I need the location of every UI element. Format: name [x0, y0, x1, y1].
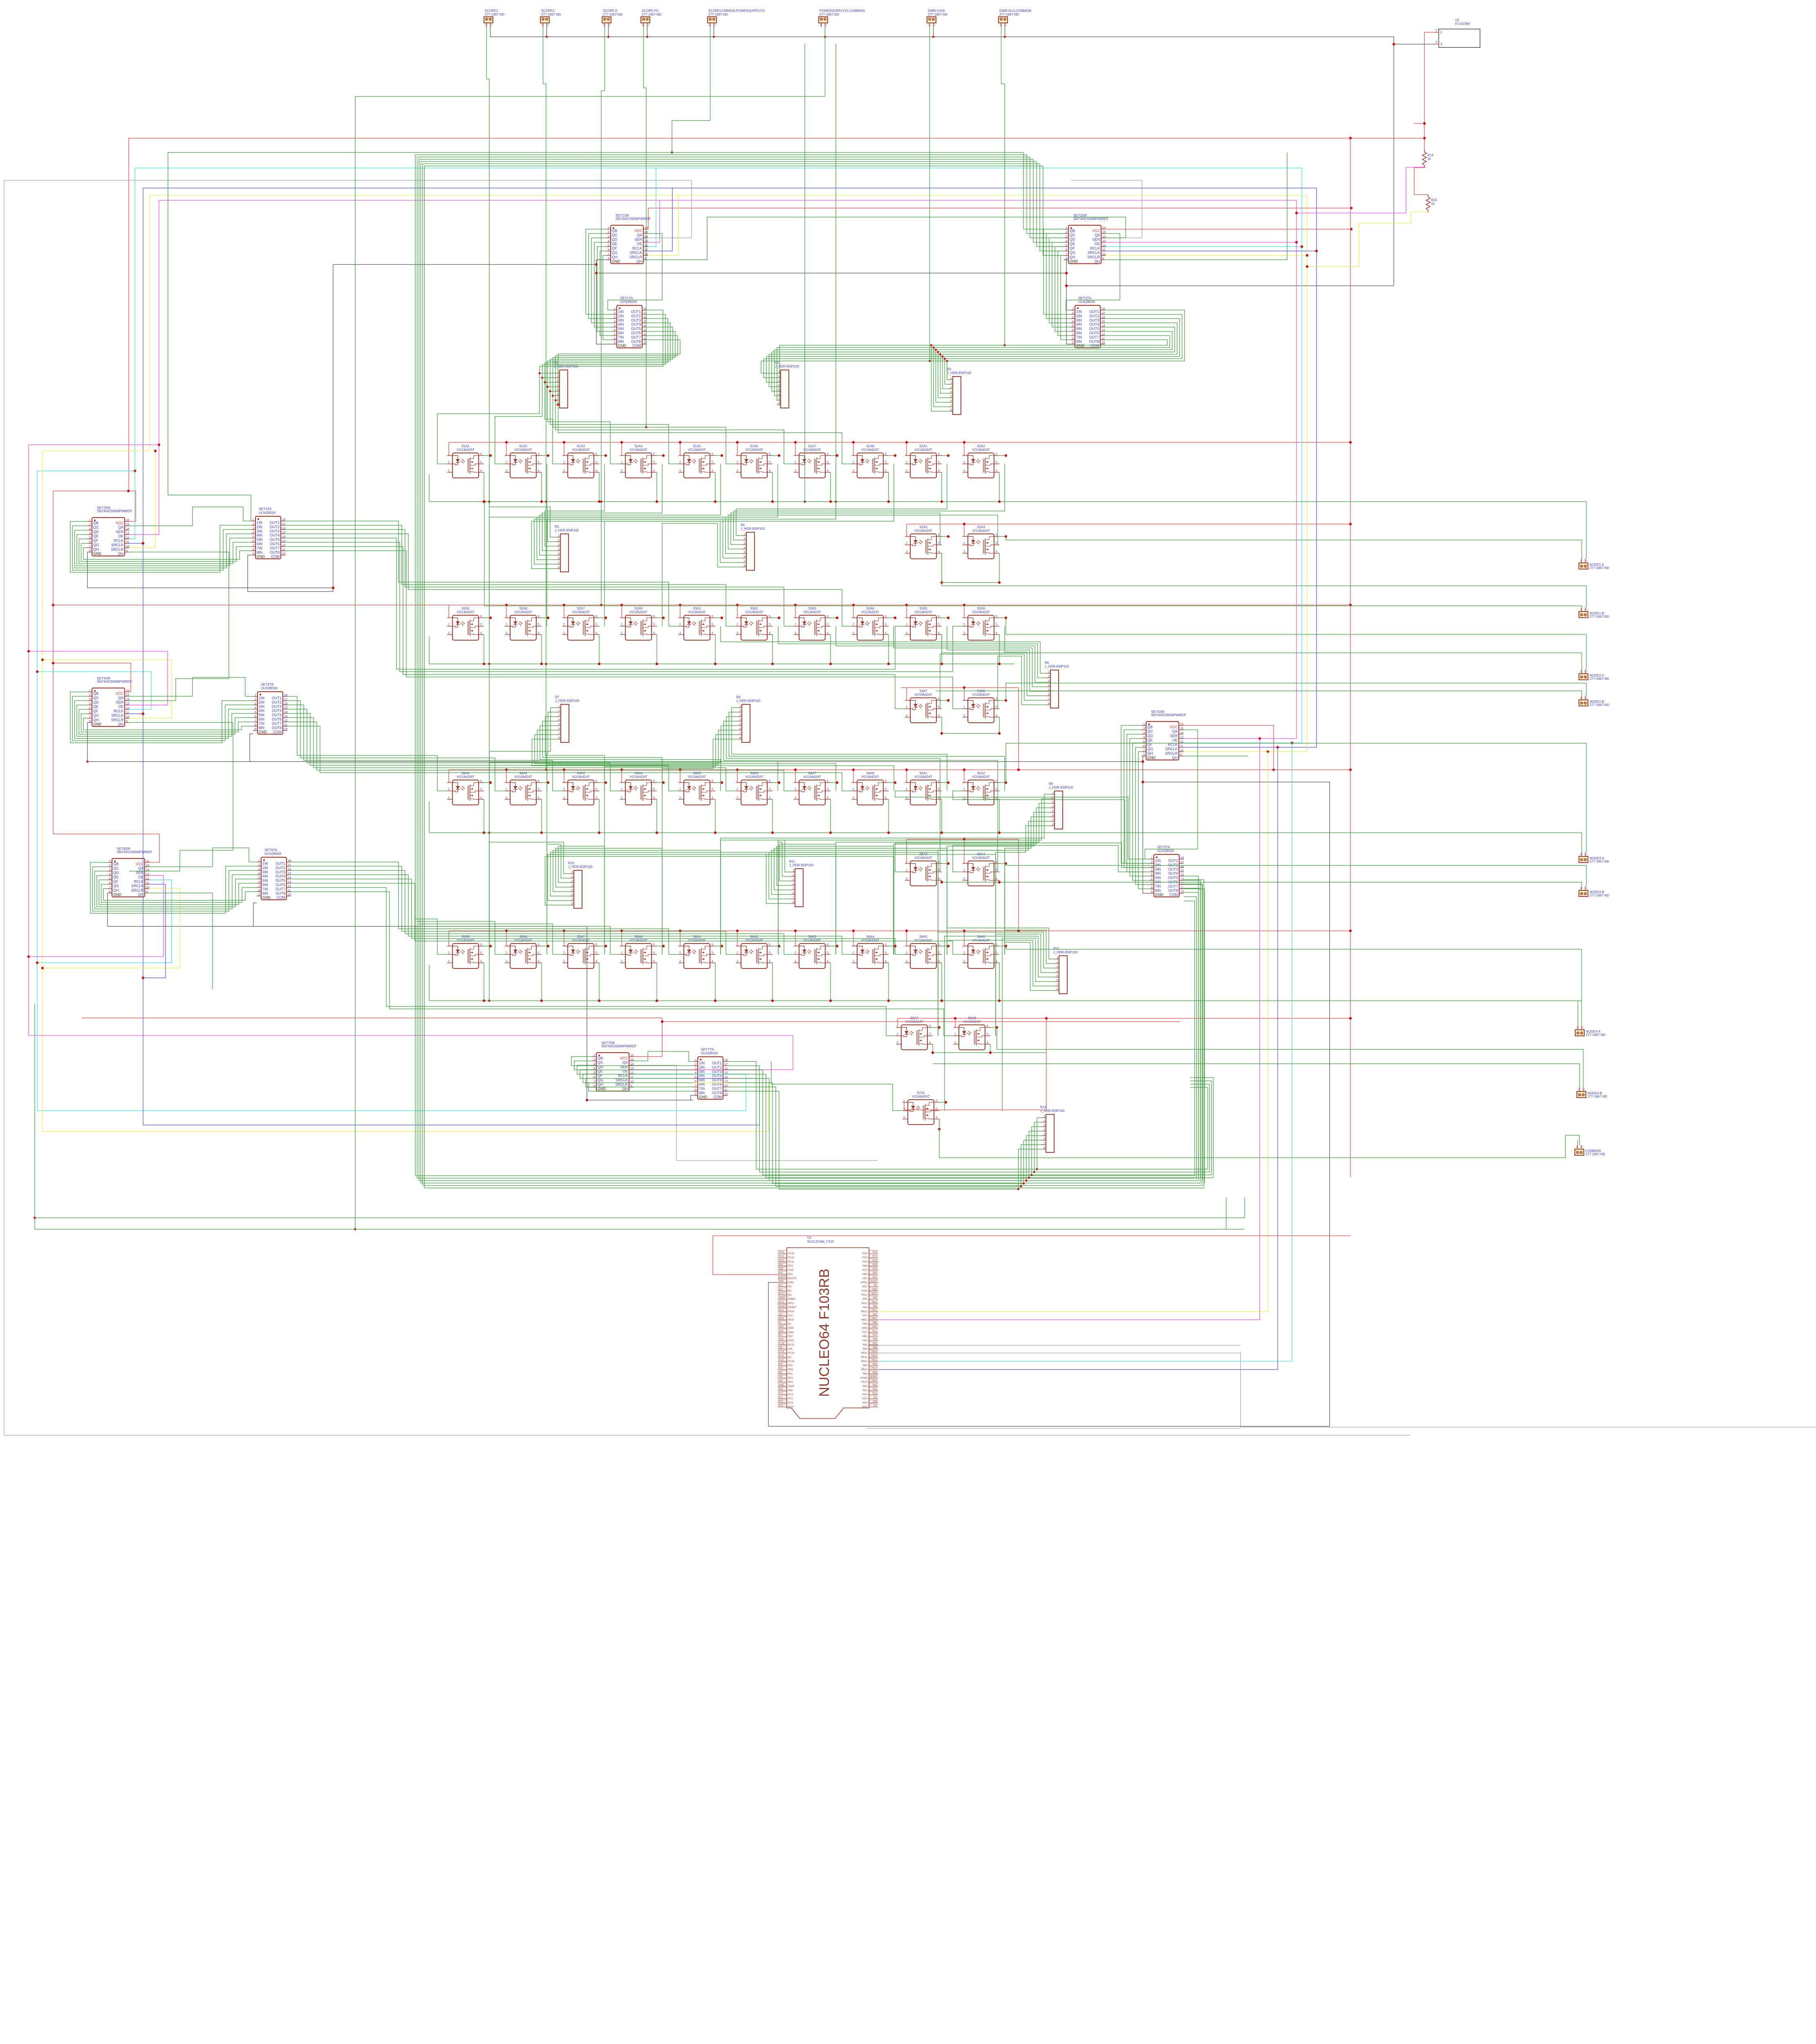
svg-text:PB14: PB14 — [871, 1359, 878, 1361]
wire green x85 vertical — [34, 1004, 35, 1229]
svg-text:SET6TA: SET6TA — [264, 848, 278, 852]
svg-text:PB1: PB1 — [873, 1342, 877, 1345]
wire green bank1 out3 — [545, 318, 668, 464]
junction green pin6 S5A6 — [547, 945, 549, 947]
wire green R2 pin1 — [761, 361, 777, 373]
junction green scopefg — [645, 426, 647, 428]
junction GND SET7 — [586, 1099, 588, 1101]
wire green SET1 QA wrap — [608, 233, 662, 310]
wire green R5 pin5 — [489, 517, 742, 626]
solid-state relay S4A8 VO14642AT — [852, 771, 889, 805]
wire green R7 pin1 — [489, 708, 557, 791]
junction green S6A1 — [714, 1000, 717, 1002]
wire red main rail vertical — [1350, 138, 1351, 1177]
svg-text:PA0: PA0 — [788, 1364, 793, 1367]
wire green SET1 Q0 stair — [586, 229, 612, 314]
svg-text:S1A8: S1A8 — [866, 444, 874, 448]
svg-text:VDD: VDD — [788, 1269, 794, 1272]
wire cyan SET2SR RCLK — [1106, 246, 1302, 247]
wire red relay bus y1282 — [907, 524, 1350, 524]
wire green SET4 Q1 stair — [72, 696, 253, 741]
wire green pin6 stub S2A7 — [599, 617, 606, 618]
wire yellow SRCLR bus top — [150, 195, 1307, 196]
wire gray frame left+bottom — [4, 180, 1410, 1435]
svg-text:277-1667-ND: 277-1667-ND — [485, 13, 504, 16]
junction red S2A6 — [505, 604, 508, 606]
wire green x3045 link — [1244, 1197, 1245, 1218]
connector NODE4-B 277-1667-ND — [1577, 1087, 1607, 1098]
junction green scope2 — [545, 769, 547, 771]
svg-text:SCOPE-FG: SCOPE-FG — [642, 9, 659, 13]
svg-text:S2A4: S2A4 — [977, 525, 985, 529]
svg-text:S1A5: S1A5 — [693, 444, 701, 448]
wire green R1 pin1 — [540, 373, 555, 374]
junction green pin6 S6A8 — [996, 1026, 998, 1029]
wire green SET4SR QH chain — [129, 722, 233, 871]
wire green NODE3-B line1 — [1006, 863, 1586, 886]
wire green SCOPE2 — [543, 27, 546, 770]
solid-state relay S7A1 VO14642AT — [902, 1091, 939, 1125]
junction red S2A7 — [563, 604, 565, 606]
wire green pin6 stub S3A8 — [999, 700, 1006, 701]
wire green riser SET5TA out4 — [1184, 884, 1202, 1186]
wire green R4 pin6 — [537, 464, 778, 560]
wire black drop DMM-V,AHI — [933, 27, 934, 37]
junction green pin6 S3A8 — [1005, 699, 1007, 702]
wire green bundle top 1 — [415, 155, 1027, 155]
wire black drop SCOPECOMMON,POWERSUPPLYV1 — [714, 27, 714, 37]
solid-state relay S2A1 VO14642AT — [905, 444, 942, 478]
wire green R12 pin8 — [1005, 942, 1055, 991]
svg-text:1k: 1k — [1431, 202, 1435, 206]
svg-text:PA15: PA15 — [788, 1318, 794, 1321]
svg-text:AVDD: AVDD — [860, 1281, 867, 1284]
junction red S1A6 — [736, 441, 739, 444]
solid-state relay S4A1 VO14642AT — [447, 771, 484, 805]
junction green pin6 S3A2 — [778, 616, 780, 619]
wire yellow R15 run — [1307, 212, 1429, 267]
wire green bank4 out5 — [287, 713, 678, 791]
wire green bank7 out3 — [728, 1070, 1042, 1175]
wire black to U2 pin3 — [1394, 44, 1434, 45]
wire green pin6 stub S4A7 — [831, 782, 837, 783]
wire green bank7 out2 — [728, 1066, 1042, 1172]
wire green bank2 out4 — [769, 323, 1178, 354]
svg-text:PB9: PB9 — [862, 1273, 867, 1276]
solid-state relay S1A4 VO14642AT — [620, 444, 657, 478]
wire red pin1 S2A5 — [447, 605, 449, 618]
wire green bus row2 — [429, 663, 1014, 664]
wire green bus row3 left end — [429, 801, 430, 833]
wire green SET3 QA wrap — [129, 507, 251, 526]
solid-state relay S5A1 VO14642AT — [905, 771, 942, 805]
wire gray PB15 from U1 — [878, 1353, 1816, 1427]
svg-text:PA6: PA6 — [863, 1306, 868, 1309]
svg-text:PC7: PC7 — [873, 1330, 877, 1332]
solid-state relay S6A4 VO14642AT — [852, 935, 889, 968]
wire green R3 pin8 — [932, 345, 953, 412]
svg-text:S2A6: S2A6 — [519, 607, 527, 610]
svg-text:277-1667-ND: 277-1667-ND — [642, 13, 661, 16]
junction green S2A8 — [656, 663, 658, 665]
junction red S4A3 — [563, 769, 565, 771]
svg-text:PA5: PA5 — [873, 1297, 877, 1299]
svg-text:PA7: PA7 — [863, 1314, 868, 1317]
wire green R8 pin5 — [489, 726, 738, 955]
wire green riser SET5TA out5 — [1184, 880, 1204, 1188]
wire yellow left vertical upper — [149, 195, 150, 451]
wire green SET1 Q2 stair — [591, 238, 612, 323]
junction yellow SET3 — [154, 450, 157, 452]
wire red pin1 S3A2 — [736, 605, 737, 618]
svg-text:PD0: PD0 — [778, 1367, 783, 1370]
junction green scope2 b1 — [545, 500, 547, 503]
wire green bundle top 4 — [421, 161, 1037, 162]
svg-text:PC12: PC12 — [788, 1260, 795, 1263]
wire green R6 pin7 — [940, 654, 1046, 709]
wire black right vertical — [1393, 37, 1394, 285]
wire green R12 pin6 — [1002, 938, 1055, 1111]
wire green R11 pin3 — [779, 844, 836, 955]
junction green pin6 S2A2 — [1005, 454, 1007, 457]
svg-text:PB11: PB11 — [871, 1318, 877, 1320]
junction red rail 560 — [1350, 228, 1352, 230]
wire green riser SET5TA out3 — [1184, 888, 1200, 1183]
junction green pin6 S5A5 — [489, 945, 492, 947]
junction green S3A1 — [714, 663, 717, 665]
wire black drop SCOPE-E — [608, 27, 609, 37]
svg-text:U5V: U5V — [873, 1276, 877, 1278]
wire black SET7TA GND stub — [691, 1095, 693, 1100]
wire green R5 pin8 — [662, 523, 742, 626]
wire green pin4 drop S3A8 — [999, 717, 1000, 733]
svg-text:R15: R15 — [1431, 198, 1437, 202]
junction magenta SET2 — [1295, 241, 1298, 243]
wire red VCC SET4SR — [53, 663, 131, 692]
junction red S6A6 — [963, 930, 965, 932]
wire green SET2 Q2 stair — [1049, 238, 1070, 323]
svg-text:R9: R9 — [1049, 782, 1053, 786]
wire red pin1 S3A3 — [794, 605, 795, 618]
svg-text:S3A4: S3A4 — [866, 607, 874, 610]
wire green pin4 drop S6A7 — [932, 1044, 933, 1053]
junction green bank7 4 — [1025, 1179, 1027, 1181]
wire green pin4 drop S5A3 — [941, 880, 942, 882]
junction green R3 p2 — [944, 358, 946, 360]
wire green to SET2SR pin7 — [1043, 166, 1064, 255]
wire green pin6 stub S3A1 — [715, 617, 722, 618]
wire green SET2 Q6 stair — [1061, 255, 1070, 340]
svg-text:277-1667-ND: 277-1667-ND — [1590, 703, 1609, 707]
svg-text:AGND: AGND — [870, 1376, 877, 1378]
wire green R5 pin6 — [547, 519, 742, 626]
svg-text:SET3SR: SET3SR — [97, 506, 110, 510]
wire green SET5SR QH stub — [1183, 755, 1248, 756]
solid-state relay S3A2 VO14642AT — [736, 607, 773, 640]
connector COMMON 277-1667-ND — [1575, 1145, 1605, 1156]
junction green pin6 S5A8 — [662, 945, 665, 947]
svg-text:R12: R12 — [1053, 947, 1059, 950]
wire green R2 pin5 — [772, 352, 777, 391]
svg-text:PB11: PB11 — [861, 1318, 867, 1321]
wire yellow branch — [43, 450, 150, 451]
wire green R12 pin7 — [947, 940, 1055, 986]
wire green R11 pin4 — [777, 846, 894, 955]
wire green R7 pin7 — [535, 735, 836, 791]
svg-text:S4A6: S4A6 — [750, 771, 758, 775]
svg-text:PD1: PD1 — [788, 1377, 793, 1380]
wire black GND SET3SR — [87, 552, 333, 588]
svg-text:NC10: NC10 — [778, 1293, 784, 1295]
junction blue SET2 — [1315, 250, 1318, 252]
wire green long x871 — [355, 96, 356, 1229]
svg-text:PC8: PC8 — [862, 1252, 868, 1255]
wire black GND left elbow to SET3TA — [248, 264, 333, 592]
wire black drop SCOPE-FG — [647, 27, 648, 37]
junction green S4A2 — [540, 831, 543, 834]
solid-state relay S3A3 VO14642AT — [794, 607, 831, 640]
header R10 J_HDR-8SIP100 — [568, 861, 593, 908]
wire green R8 pin7 — [605, 735, 738, 955]
svg-text:PB7: PB7 — [788, 1335, 793, 1338]
wire green R10 pin5 — [553, 850, 721, 955]
wire green bank5 out4 — [953, 845, 1149, 872]
wire green bank6 out7 — [291, 888, 896, 1036]
wire green bank1 out7 — [555, 336, 794, 464]
junction green bank7 7 — [1017, 1188, 1019, 1190]
junction cyan nucleo tap — [1291, 742, 1293, 744]
wire green bundle2 ext 0 — [1037, 1169, 1208, 1170]
wire green bank5 out7r — [1184, 885, 1202, 1181]
wire green bank7 out6 — [728, 1083, 1042, 1184]
wire green pin4 drop S2A2 — [999, 472, 1000, 502]
header R11 J_HDR-8SIP100 — [789, 860, 814, 907]
svg-text:PB0: PB0 — [778, 1388, 783, 1390]
junction green x85 — [34, 1217, 36, 1219]
svg-text:U1: U1 — [807, 1236, 812, 1239]
resistor R14 1k — [1422, 150, 1433, 168]
junction red SET7 — [661, 1020, 663, 1023]
junction red main — [1423, 137, 1426, 139]
connector NODE1-B 277-1667-ND — [1579, 607, 1609, 619]
wire green pin6 stub S1A1 — [484, 455, 490, 456]
wire red pin1 S6A6 — [963, 931, 964, 946]
wire green NODE3-A line2 — [1581, 833, 1582, 852]
wire green pin6 stub S5A4 — [999, 863, 1006, 864]
svg-text:NC: NC — [874, 1405, 877, 1407]
wire green R9 pin1 — [721, 794, 1050, 955]
svg-text:277-1667-ND: 277-1667-ND — [1590, 615, 1609, 619]
wire green bus row1b — [942, 582, 999, 583]
junction red S3A1 — [679, 604, 681, 606]
wire red pin1 S6A1 — [678, 931, 680, 946]
wire red pin1 S1A5 — [678, 442, 680, 455]
svg-text:NC: NC — [788, 1289, 792, 1292]
wire green pin4 drop S5A4 — [999, 880, 1000, 882]
wire red pin1 S5A3 — [905, 839, 907, 863]
wire green bundle top 6 — [425, 166, 1043, 166]
junction green S4A6 — [771, 831, 774, 834]
wire green SET1 Q4 stair — [597, 247, 612, 331]
junction GND SET1b — [595, 272, 598, 274]
wire red VCC SET6SR — [53, 834, 159, 863]
junction red S4A6 — [736, 769, 739, 771]
svg-text:PA4: PA4 — [778, 1380, 783, 1382]
wire green bottom bundle 5 — [425, 1188, 1204, 1188]
wire green SET6 Q6 stair — [103, 889, 257, 900]
junction green S1A6 — [771, 500, 774, 503]
wire green pin4 drop S3A6 — [999, 634, 1000, 664]
wire red pin1 S2A6 — [505, 605, 506, 618]
wire green NODE2-A line2 — [942, 634, 1582, 670]
svg-text:277-1667-ND: 277-1667-ND — [928, 13, 947, 16]
svg-text:PC0: PC0 — [778, 1405, 783, 1407]
wire red pin1 S5A2 — [963, 770, 964, 782]
wire cyan SET4SR RCLK — [37, 672, 151, 709]
svg-text:PB13: PB13 — [861, 1368, 868, 1371]
junction red rail y1883 — [1349, 769, 1352, 771]
svg-text:PA1: PA1 — [778, 1372, 783, 1374]
wire green long vertical 3 — [419, 159, 419, 1181]
wire green bus row2 left end — [429, 637, 430, 664]
wire green pin4 drop S4A8 — [888, 799, 889, 833]
wire red pin1 S3A8 — [963, 688, 964, 700]
wire green pin6 stub S3A2 — [773, 617, 779, 618]
wire red pin1 S3A7 — [905, 688, 907, 700]
junction magenta nucleo tap — [1258, 737, 1261, 740]
svg-text:S1A3: S1A3 — [577, 444, 585, 448]
wire green R1 pin7 — [555, 400, 556, 401]
wire green R3 pin4 — [940, 354, 953, 394]
wire red pin1 S1A8 — [852, 442, 853, 455]
junction green bank7 0 — [1036, 1168, 1038, 1170]
wire green pin6 stub S6A1 — [715, 946, 722, 946]
svg-text:SET6SR: SET6SR — [117, 847, 130, 851]
junction green pin6 S6A5 — [947, 945, 949, 947]
svg-text:NC4: NC4 — [862, 1397, 868, 1400]
wire green riser SET5TA out0 — [1184, 901, 1195, 1176]
wire red pin1 S6A5 — [905, 931, 907, 946]
wire green bus row2b — [942, 733, 999, 734]
wire green SCOPE1 — [487, 27, 490, 1001]
junction red S1A4 — [620, 441, 623, 444]
wire red pin1 S2A4 — [963, 524, 964, 536]
svg-text:GND: GND — [778, 1326, 784, 1328]
junction green S5A8 — [656, 1000, 658, 1002]
connector SCOPE-FG 277-1667-ND — [641, 9, 661, 27]
wire yellow far-left vertical — [42, 451, 43, 1132]
junction green S5A1 — [940, 831, 943, 834]
wire green SET6 Q3 stair — [97, 876, 257, 907]
junction green S4A3 — [598, 831, 600, 834]
svg-text:PA13: PA13 — [778, 1301, 784, 1303]
svg-text:S4A2: S4A2 — [519, 771, 527, 775]
svg-text:GND: GND — [778, 1338, 784, 1341]
header R2 J_HDR-8SIP100 — [775, 361, 799, 408]
svg-text:PB7: PB7 — [778, 1334, 783, 1337]
svg-text:PA6: PA6 — [873, 1305, 877, 1307]
svg-text:PA5: PA5 — [863, 1298, 868, 1301]
svg-text:277-1667-ND: 277-1667-ND — [541, 13, 561, 16]
junction red rail 509 — [1350, 207, 1352, 209]
junction green dmmv — [929, 360, 931, 362]
junction red S2A4 — [963, 523, 965, 525]
wire green bank7 out1 — [728, 1062, 1042, 1170]
wire green R11 pin5 — [774, 848, 947, 955]
junction GND SET2 — [1065, 272, 1068, 274]
wire cyan SET5SR RCLK — [1183, 742, 1302, 743]
wire yellow SET2SR SRCLR — [1106, 255, 1307, 256]
svg-text:PC10: PC10 — [788, 1252, 795, 1255]
svg-text:GND: GND — [788, 1339, 794, 1342]
wire green R7 pin4 — [543, 721, 663, 791]
wire green pin6 stub S4A1 — [484, 782, 490, 783]
svg-text:NC5: NC5 — [862, 1406, 868, 1409]
svg-text:BOOT0: BOOT0 — [778, 1276, 786, 1278]
junction green x871 bottom — [354, 1228, 356, 1230]
svg-text:GND: GND — [778, 1330, 784, 1332]
wire magenta OE bus top — [159, 200, 1297, 201]
wire green bank3 out3 — [285, 529, 794, 626]
wire green SET6 Q1 stair — [92, 867, 257, 911]
wire green DMM-V — [929, 27, 930, 361]
wire gray SER stub SET7SR — [634, 1065, 676, 1066]
wire green bank2 out1 — [761, 310, 1185, 361]
wire red bus S3A7 row — [901, 688, 1019, 770]
wire green pin4 drop S4A4 — [656, 799, 657, 833]
svg-text:277-1667-ND: 277-1667-ND — [1586, 1033, 1606, 1037]
svg-text:PB12: PB12 — [861, 1310, 868, 1313]
wire green NODE4-B line1 — [997, 1027, 1583, 1087]
svg-text:S4A5: S4A5 — [693, 771, 701, 775]
svg-text:GND: GND — [872, 1289, 877, 1291]
junction green pin6 S5A3 — [947, 862, 949, 865]
solid-state relay S3A1 VO14642AT — [678, 607, 715, 640]
wire green pin6 stub S4A6 — [773, 782, 779, 783]
solid-state relay S1A7 VO14642AT — [794, 444, 831, 478]
wire green R3 pin5 — [938, 352, 952, 398]
junction green S5A7 — [598, 1000, 600, 1002]
wire green R6 pin3 — [836, 626, 1046, 682]
wire green bank2 out8 — [780, 340, 1168, 345]
svg-text:S4A8: S4A8 — [866, 771, 874, 775]
solid-state relay S4A7 VO14642AT — [794, 771, 831, 805]
wire red relay bus y1480 — [53, 605, 1350, 605]
wire red pin1 S2A3 — [905, 524, 907, 536]
junction green x2045 — [835, 500, 837, 503]
wire green R9 pin2 — [778, 799, 1050, 955]
svg-text:S1A6: S1A6 — [750, 444, 758, 448]
solid-state relay S5A5 VO14642AT — [447, 935, 484, 968]
wire red pin1 S5A6 — [505, 931, 506, 946]
junction green R3 p3 — [941, 355, 943, 357]
junction green S3A5 — [940, 663, 943, 665]
junction green R3 p6 — [935, 349, 937, 351]
svg-text:PC5: PC5 — [873, 1268, 877, 1270]
connector NODE3-B 277-1667-ND — [1579, 886, 1609, 897]
junction green S6A3 — [829, 1000, 832, 1002]
svg-text:U2: U2 — [1455, 18, 1460, 22]
connector SCOPE-E 277-1667-ND — [602, 9, 623, 27]
wire green SET5 Q2 stair — [1127, 734, 1149, 872]
wire green pin6 stub S6A7 — [933, 1027, 939, 1028]
svg-text:S2A1: S2A1 — [919, 444, 927, 448]
wire green pin4 drop S2A3 — [941, 553, 942, 583]
junction red rail top — [1349, 137, 1352, 139]
svg-text:PB8: PB8 — [862, 1264, 867, 1267]
solid-state relay S1A8 VO14642AT — [852, 444, 889, 478]
wire green to SET2SR pin5 — [1037, 161, 1064, 247]
